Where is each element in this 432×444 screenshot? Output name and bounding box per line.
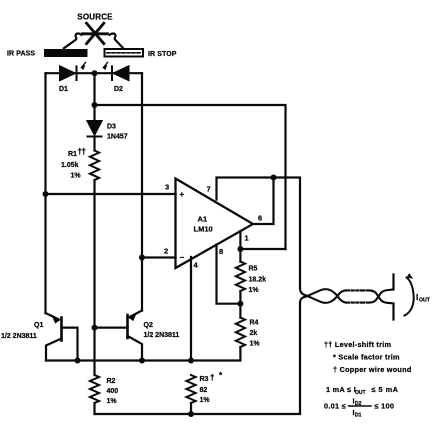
svg-text:1.05k: 1.05k xyxy=(61,162,79,169)
node R5 bottom xyxy=(237,301,243,307)
svg-text:R1: R1 xyxy=(68,151,77,158)
svg-text:400: 400 xyxy=(107,388,119,395)
node diode midpoint xyxy=(92,70,98,76)
svg-text:* Scale factor trim: * Scale factor trim xyxy=(333,353,400,362)
photodiode D1 xyxy=(60,66,77,80)
formula current ratio range xyxy=(324,397,394,419)
svg-text:† Copper wire wound: † Copper wire wound xyxy=(333,365,412,374)
twisted pair xyxy=(300,288,392,303)
svg-text:†† Level-shift trim: †† Level-shift trim xyxy=(324,340,391,349)
lamp source symbol xyxy=(83,23,108,43)
transistor Q1 xyxy=(46,313,78,361)
note level-shift trim xyxy=(324,340,412,374)
svg-text:1/2 2N3811: 1/2 2N3811 xyxy=(144,332,180,339)
node pin 1 junction xyxy=(237,246,243,252)
resistor R3 xyxy=(186,375,195,403)
svg-text:82: 82 xyxy=(200,387,208,394)
svg-text:2k: 2k xyxy=(250,330,258,337)
resistor R2 xyxy=(90,375,99,403)
output terminal stubs xyxy=(392,275,394,320)
svg-text:A1: A1 xyxy=(198,215,208,224)
wire midpoint to feedback (pin 1) xyxy=(95,105,286,249)
svg-text:≤ 100: ≤ 100 xyxy=(375,402,395,411)
label Q2 xyxy=(144,322,180,339)
svg-text:OUT: OUT xyxy=(419,298,431,304)
svg-text:7: 7 xyxy=(207,185,211,194)
svg-text:1%: 1% xyxy=(249,287,260,294)
wire pin 2 xyxy=(142,256,176,258)
svg-text:R3: R3 xyxy=(200,376,209,383)
svg-text:SOURCE: SOURCE xyxy=(77,13,113,22)
wire R5 to node xyxy=(239,291,241,304)
svg-text:D1: D1 xyxy=(59,86,68,93)
node Q2 base junction xyxy=(92,325,98,331)
node output junction xyxy=(271,175,277,181)
svg-text:R4: R4 xyxy=(250,320,259,327)
svg-text:1N457: 1N457 xyxy=(107,134,128,141)
node pin4 rail junction xyxy=(188,358,194,364)
resistor R5 xyxy=(236,262,245,292)
svg-text:1: 1 xyxy=(245,234,249,243)
op-amp A1 triangle xyxy=(176,179,254,269)
svg-text:†: † xyxy=(210,373,214,382)
svg-text:OUT: OUT xyxy=(355,390,366,396)
light arrow onto D1 xyxy=(82,63,86,69)
wire photodiode row xyxy=(46,72,143,74)
wire node to R4 xyxy=(239,304,241,318)
svg-text:*: * xyxy=(219,371,223,380)
svg-text:1%: 1% xyxy=(200,397,211,404)
light ray to IR PASS filter xyxy=(64,33,82,48)
label R2 400 1% xyxy=(107,378,119,405)
svg-text:1%: 1% xyxy=(71,173,82,180)
wire pin 3 bus xyxy=(46,193,176,195)
svg-text:2: 2 xyxy=(164,247,168,256)
svg-text:≤ 5 mA: ≤ 5 mA xyxy=(372,385,399,394)
label R5 18.2k 1% xyxy=(249,266,267,295)
diode D3 xyxy=(88,121,102,137)
svg-text:1 mA ≤ I: 1 mA ≤ I xyxy=(326,385,356,394)
svg-text:I: I xyxy=(416,293,418,302)
IR STOP filter xyxy=(105,49,144,57)
light ray to IR STOP filter xyxy=(110,33,123,47)
svg-text:1%: 1% xyxy=(250,341,261,348)
IR PASS filter xyxy=(44,49,88,57)
fraction bar xyxy=(349,405,372,407)
label R4 2k 1% xyxy=(250,320,261,348)
wire pin 7 to output bus xyxy=(217,178,301,289)
op-amp labels xyxy=(164,183,262,270)
label Q1 xyxy=(1,322,43,340)
svg-text:R2: R2 xyxy=(107,378,116,385)
svg-text:IR PASS: IR PASS xyxy=(7,51,35,58)
resistor R1 xyxy=(90,151,99,181)
svg-text:8: 8 xyxy=(219,247,223,256)
svg-text:R5: R5 xyxy=(249,266,258,273)
svg-text:1/2 2N3811: 1/2 2N3811 xyxy=(1,333,37,340)
current direction arrow xyxy=(405,273,414,315)
svg-text:0.01 ≤: 0.01 ≤ xyxy=(324,402,346,411)
svg-text:††: †† xyxy=(78,147,86,156)
wire D3 to R1 xyxy=(93,137,95,151)
label D3 1N457 xyxy=(107,124,128,141)
wire R1 bottom down to Q2 base xyxy=(93,180,95,375)
svg-text:4: 4 xyxy=(194,261,199,270)
svg-text:IR STOP: IR STOP xyxy=(148,51,177,58)
node R3 rail junction xyxy=(188,411,194,417)
svg-text:LM10: LM10 xyxy=(194,225,213,234)
photodiode D2 xyxy=(112,66,129,80)
node midpoint tap xyxy=(92,102,98,108)
node Q1 base to rail xyxy=(75,358,81,364)
svg-text:6: 6 xyxy=(258,214,262,223)
node bus left xyxy=(43,191,49,197)
wire pin1 node to R5 xyxy=(239,249,241,262)
label R1 daggers 1.05k 1% xyxy=(61,147,85,180)
wire pin 4 down xyxy=(190,257,192,361)
svg-text:3: 3 xyxy=(165,183,169,192)
formula output current range xyxy=(326,385,399,396)
resistor R4 xyxy=(236,318,245,348)
svg-text:Q1: Q1 xyxy=(34,322,43,329)
light arrow onto D2 xyxy=(104,63,108,69)
node pin 2 junction xyxy=(139,255,145,261)
svg-text:D2: D2 xyxy=(114,86,123,93)
transistor Q2 xyxy=(95,311,143,361)
svg-text:+: + xyxy=(180,190,185,199)
wire negative rail to twisted pair xyxy=(95,303,301,414)
wire R4 bottom to collector rail xyxy=(46,347,240,361)
wire midpoint down to D3 xyxy=(93,73,95,120)
wire R3 bottom xyxy=(190,403,192,414)
wire R2 bottom xyxy=(93,403,95,414)
wire pin 6 output xyxy=(253,178,274,225)
svg-text:D1: D1 xyxy=(355,413,362,419)
label R3 dagger star 82 1% xyxy=(200,371,224,404)
wire D1 anode vertical xyxy=(44,73,46,313)
wire pin 8 xyxy=(217,245,241,304)
label IOUT xyxy=(416,293,431,304)
wire pin 1 xyxy=(240,231,285,249)
svg-text:1%: 1% xyxy=(107,398,118,405)
svg-text:Q2: Q2 xyxy=(144,322,153,329)
svg-text:−: − xyxy=(180,253,185,262)
wire D2 anode vertical xyxy=(141,73,143,310)
svg-text:18.2k: 18.2k xyxy=(249,277,267,284)
node Q2 collector to rail xyxy=(139,358,145,364)
svg-text:D3: D3 xyxy=(107,124,116,131)
